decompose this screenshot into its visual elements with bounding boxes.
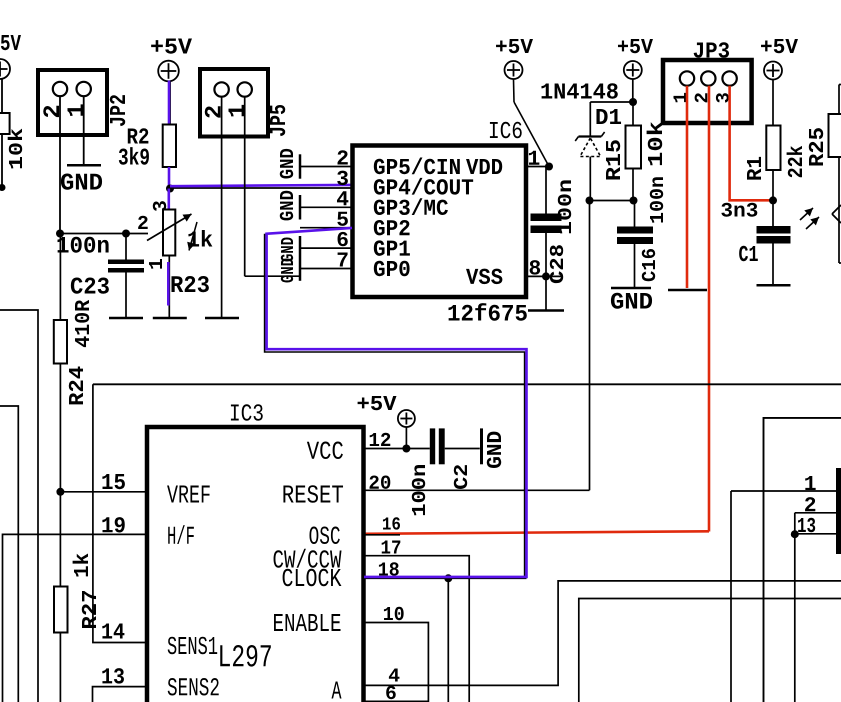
resistor R27 1k — [54, 553, 96, 632]
IC U IC6 body — [353, 122, 527, 321]
wire IC3 pin16 OSC stub — [363, 517, 400, 534]
power +5V above R15 — [618, 39, 653, 79]
ground C16 — [611, 288, 652, 309]
wire IC3 pin15 VREF — [60, 474, 146, 492]
wire IC3 pin13 SENS2 — [93, 668, 147, 702]
label C23 — [71, 277, 109, 293]
wire red JP3 pin2 vertical — [708, 86, 711, 532]
ground rail C23 — [109, 317, 143, 320]
label C1 — [739, 246, 758, 261]
resistor R25 — [809, 114, 841, 166]
wire purple loop — [267, 233, 527, 577]
label R23 pin2 — [138, 216, 148, 229]
wire node to R23 top (purple) — [168, 189, 171, 210]
resistor R24 410R — [54, 300, 89, 405]
wire loop net black — [265, 234, 525, 578]
label D1 — [596, 109, 621, 124]
power +5V (partial, left edge) — [0, 35, 21, 79]
wire left rail2 — [0, 406, 18, 702]
label 1N4148 — [541, 83, 617, 98]
ground text GND pin2 — [280, 149, 293, 179]
ground bar IC6 pin2 — [299, 154, 302, 178]
wire R25 down — [838, 157, 840, 201]
wire +5V down — [632, 79, 634, 102]
wire purple GP2 diagonal — [265, 228, 352, 234]
wire IC6 pin7 stub — [300, 268, 352, 270]
label R23 pin1 — [149, 259, 162, 269]
ground text C2 — [487, 432, 501, 468]
wire JP5 pin1 down — [244, 97, 246, 277]
wire JP5 pin2 to GND — [221, 97, 223, 318]
ground rail JP5 — [205, 317, 239, 320]
power +5V above R1 — [761, 39, 798, 80]
pin number 6 IC6 — [338, 232, 348, 246]
ground bar JP3 pin1 — [668, 289, 707, 292]
label 100n C2 — [412, 465, 425, 515]
wire red JP3 pin1 — [686, 86, 689, 288]
ground text GND pin7 — [281, 259, 293, 283]
wire R27 down — [59, 633, 61, 702]
wire CLOCK branch down — [447, 578, 449, 702]
capacitor C28 100n — [528, 167, 564, 311]
pin number 7 IC6 — [338, 252, 348, 266]
wire R25 top — [839, 85, 841, 115]
connector JP2 — [38, 70, 125, 135]
node junction C23 — [122, 230, 130, 238]
wire IC3 pin10 ENABLE — [363, 607, 428, 702]
ground bar IC6 pins6-7 — [299, 236, 302, 281]
IC3 pin labels — [167, 442, 343, 699]
wire IC3 pin17 CW/CCW — [363, 540, 469, 702]
pin number 2 IC6 — [338, 150, 348, 164]
capacitor C2 100n — [430, 428, 482, 464]
wire node to R24 — [59, 234, 61, 321]
wire VDD stub — [526, 166, 549, 168]
wire R2 to node (purple) — [168, 167, 171, 189]
wire node to IC6 pin3 — [170, 187, 352, 189]
wire IC3 pin4 A — [363, 581, 841, 686]
pin number 5 IC6 — [337, 212, 348, 226]
diode D1 1N4148 — [575, 102, 604, 201]
connector JP3 — [663, 42, 752, 123]
node junction D1 — [586, 197, 594, 205]
resistor R2 3k9 — [119, 125, 176, 168]
wire JP2 pin2 — [59, 96, 61, 233]
label C28 — [550, 245, 563, 283]
label C16 — [642, 249, 655, 281]
resistor R15 10k — [606, 102, 662, 201]
pin number 3 IC6 — [337, 171, 348, 185]
trimmer R23 wiper arrow — [147, 214, 192, 241]
power +5V above R2 — [151, 38, 192, 81]
wire left rail1 — [0, 310, 38, 702]
wire +5V diag to VDD — [514, 80, 549, 166]
label 100n C16 — [650, 177, 663, 222]
wire to R27 — [59, 492, 61, 587]
wire IC4 top corner — [764, 418, 841, 702]
node junction R15/C16 — [630, 197, 638, 205]
wire IC6 pin2 stub — [300, 166, 352, 168]
wire R1 to C1 — [772, 170, 774, 227]
node junction R1/C1 — [769, 196, 777, 204]
wire red JP3 pin3 — [730, 86, 771, 201]
label 3n3 — [721, 203, 757, 217]
node junction pin13 — [791, 530, 799, 538]
wire top row — [590, 101, 635, 103]
wire IC4 pin2 — [795, 497, 836, 513]
IC U IC4 edge (partial) — [836, 468, 841, 554]
phototransistor Q? (partial) — [800, 201, 841, 235]
node junction R2/R23/GP4 — [166, 185, 174, 193]
ground C1 — [757, 284, 791, 287]
wire R23 bottom purple overlay — [167, 262, 170, 306]
pin number 4 IC6 — [337, 191, 348, 205]
IC6 pin labels — [374, 157, 503, 284]
pin number 8 IC6 — [530, 260, 540, 274]
node junction pin15 — [56, 488, 64, 496]
wire IC3 pin14 SENS1 — [93, 384, 147, 642]
label R23 — [171, 276, 208, 292]
wire IC4 pin1 — [731, 476, 836, 702]
wire — [1, 79, 3, 114]
node junction 100n — [56, 230, 64, 238]
wire pin6 row — [579, 599, 841, 702]
ground text GND pin6 — [281, 238, 293, 262]
wire +5V to R2 (purple) — [168, 81, 171, 125]
capacitor C23 — [108, 234, 144, 318]
node junction VSS — [542, 272, 550, 280]
label 100n C23 — [58, 237, 109, 253]
label C2 — [454, 465, 467, 489]
wire IC6 pin5 stub — [300, 227, 352, 229]
label L297 — [220, 645, 271, 667]
capacitor C16 100n — [617, 201, 653, 288]
node junction VCC — [402, 445, 410, 453]
wire IC3 pin19 H/F — [3, 517, 147, 702]
wire JP2 pin1 — [83, 96, 85, 165]
wire IC3 pin20 RESET — [363, 475, 590, 490]
wire photo down — [839, 235, 841, 263]
wire JP5 pin1 to GND bar — [245, 275, 300, 277]
wire IC3 pin18 CLOCK — [363, 562, 527, 578]
node junction top — [629, 98, 637, 106]
wire IC4 pin13 — [795, 513, 836, 702]
wire mid row — [590, 200, 635, 202]
wire R23 bottom — [168, 256, 170, 318]
label R23 pin3 — [153, 201, 166, 211]
ground GND under JP2 — [61, 165, 102, 189]
resistor R1 22k — [747, 126, 802, 180]
power +5V at VCC — [358, 396, 415, 449]
wire IC6 pin6 stub — [300, 247, 352, 249]
wire +5V to R2 black — [169, 81, 171, 125]
node junction CLOCK — [444, 574, 452, 582]
ground text GND pin4 — [280, 191, 293, 221]
label 100n C28 — [558, 180, 571, 233]
trimmer R23 1k body — [163, 210, 175, 256]
capacitor C1 3n3 — [757, 226, 791, 284]
wire R24 to node15 — [59, 364, 61, 492]
wire IC3 pin6 B stub — [363, 686, 428, 702]
ground rail R23 — [153, 317, 187, 320]
connector JP5 — [200, 69, 285, 137]
IC U IC3 L297 body — [147, 404, 364, 702]
wire IC6 pin4 stub — [300, 206, 352, 208]
wire — [1, 134, 3, 188]
wire VSS stub — [526, 275, 563, 277]
wire purple overlay GP4 — [170, 185, 352, 186]
wire red JP3 pin2 to OSC — [364, 531, 709, 534]
wire IC3 pin12 VCC — [363, 433, 430, 449]
node junction VDD — [545, 163, 553, 171]
power +5V above IC6 — [496, 39, 533, 79]
wire long SENS1 row — [93, 383, 841, 385]
wire +5V to R1 — [772, 80, 774, 126]
pin number 1 IC6 — [529, 151, 539, 165]
wire D1 node to RESET — [589, 201, 591, 491]
resistor R? 10k (partial, left edge) — [0, 113, 22, 168]
wire node row — [60, 233, 148, 235]
label R23 value 1k — [187, 222, 212, 251]
ground bar IC6 pin4 — [299, 195, 302, 220]
node stub end — [0, 184, 6, 191]
